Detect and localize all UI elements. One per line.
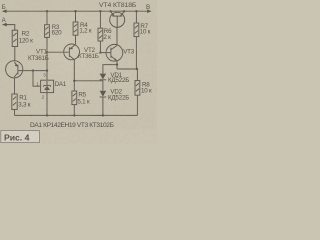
wire: R8 bottom to rail [136,95,138,115]
resistor R6 [98,28,103,41]
wire: top rail Б [3,10,151,12]
junction node VT3 emitter/VD1 [116,63,118,65]
junction node VT2 base tap [46,51,48,53]
wire: R4 bottom to VT2 emitter [75,35,77,44]
wire: rail to R3 [46,11,48,25]
junction node VT1 base/R3 line [46,69,48,71]
wire: terminal A stub [3,25,15,31]
junction node R7/rail [135,10,137,12]
junction node VT4 emitter/rail [110,10,112,12]
wire: rail to R7 [135,11,137,23]
wire: node to VD1/VD2 midpoint [74,80,103,82]
wire: node to R8 top [136,69,138,81]
wire: R7 bottom to node [135,37,137,69]
junction node VD2/bottom rail [102,114,104,116]
wire: R6 bottom to VT3 base [100,41,111,53]
wire: bottom rail [15,114,138,116]
junction node R3/rail [46,10,48,12]
transistor VT4 [110,11,125,27]
wire: VT3 emitter down [116,61,118,69]
junction node DA1/bottom rail [46,114,48,116]
diode VD1 [100,74,107,80]
junction node R7/R8 [136,68,138,70]
junction node R6/VT3 base [99,51,101,53]
transistor VT2 [64,44,80,60]
paper grain overlay [0,0,157,144]
wire: emitter node left to VD1 [103,65,117,74]
wire: VT1 base to node at x47 [18,70,47,72]
terminal arrow Б left [2,9,6,13]
IC DA1 [41,80,54,92]
wire: VT2 collector down to node [73,59,75,80]
bottom page strip [0,130,157,144]
junction node VT1 base/DA1 branch [32,69,34,71]
resistor R8 [135,81,140,96]
wire: DA1 bottom to rail [46,93,48,116]
wire: rail to R6 [99,11,101,28]
wire: branch down to DA1 pin 1 [33,71,41,87]
wire: node to R5 top [73,81,75,91]
resistor R5 [72,91,77,105]
wire: R2 bottom to VT1 emitter [14,47,16,62]
resistor R7 [134,23,139,37]
wire: R5 bottom to rail [73,105,75,116]
junction node R6/rail [99,10,101,12]
wire: emitter node right to R7/R8 [117,68,137,70]
transistor VT1 [6,61,23,78]
wire: VT1 collector to R1 [14,78,16,94]
junction node VT4 collector/rail [123,10,125,12]
wire: R3 bottom down through VT2 base tap to DA1 top [46,37,48,80]
wire: R1 bottom to ground rail [14,110,16,116]
wire: VT4 base lead down to VT3 collector [116,27,118,45]
figure label box [1,131,40,143]
resistor R4 [73,22,78,35]
paper mottle overlay [0,0,157,144]
paper background [0,0,157,144]
wire: VD1 cathode to mid node [102,80,104,90]
terminal arrow А left [2,23,6,27]
junction node VT2 collector/R5 [73,80,75,82]
junction node R4/rail [74,10,76,12]
wire: VT2 base wire [47,51,69,53]
wire: VD2 cathode to rail [102,98,104,116]
terminal arrow В right [147,9,151,13]
resistor R2 [12,30,17,46]
transistor VT3 [106,44,123,61]
junction node R5/bottom rail [73,114,75,116]
resistor R3 [45,25,50,38]
resistor R1 [12,94,17,110]
diode VD2 [100,91,107,97]
wire: rail to R4 [75,11,77,22]
